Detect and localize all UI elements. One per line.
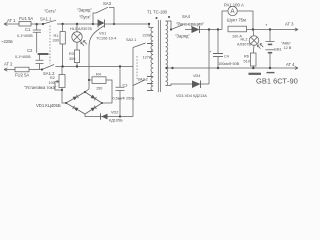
svg-text:"Пуск": "Пуск"	[79, 15, 91, 20]
node R3 bottom	[76, 65, 78, 67]
svg-text:VD3-VD4 КД213А: VD3-VD4 КД213А	[176, 94, 207, 98]
diode VD4	[192, 81, 209, 89]
capacitor C3	[116, 67, 125, 117]
svg-text:330: 330	[53, 39, 59, 43]
T1 secondary winding	[166, 21, 168, 86]
node C4 top	[217, 28, 219, 30]
node SA1.2 pivot	[41, 68, 43, 70]
wire output minus	[170, 67, 290, 69]
svg-text:С3: С3	[123, 84, 128, 88]
node R1	[61, 23, 63, 25]
svg-text:R2: R2	[50, 76, 55, 80]
fuse FU1	[17, 21, 36, 26]
svg-text:FU1 5А: FU1 5А	[19, 16, 33, 21]
wire VD4 riser	[208, 30, 210, 85]
capacitor C1	[33, 25, 41, 53]
svg-text:0,1*400В: 0,1*400В	[17, 34, 33, 38]
svg-text:А: А	[231, 9, 235, 15]
wire output plus	[253, 29, 290, 31]
node C3 top	[119, 65, 121, 67]
svg-text:"Заряд": "Заряд"	[175, 34, 190, 39]
thyristor VS1 gate	[89, 26, 105, 90]
svg-text:SA2.1: SA2.1	[126, 38, 136, 42]
resistor R1	[60, 24, 65, 67]
svg-text:0,1*400В: 0,1*400В	[15, 55, 31, 59]
switch SA1.1	[43, 20, 62, 24]
svg-text:R3: R3	[69, 52, 74, 56]
svg-text:С2: С2	[27, 48, 33, 53]
bridge VD1	[66, 92, 102, 114]
svg-text:Шунт 75м: Шунт 75м	[227, 18, 246, 23]
switch SA3	[93, 7, 114, 24]
svg-text:VS1: VS1	[99, 32, 106, 36]
svg-text:220в: 220в	[143, 34, 151, 38]
ammeter PA1	[222, 6, 253, 29]
node R4 tap	[88, 79, 90, 81]
svg-text:R1: R1	[54, 34, 59, 38]
node bridge top	[84, 91, 86, 93]
svg-text:~220в: ~220в	[1, 39, 13, 44]
svg-text:"Заряд": "Заряд"	[77, 8, 92, 13]
svg-text:Т1 ТС-180: Т1 ТС-180	[147, 10, 168, 15]
wire primary top	[149, 24, 153, 28]
capacitor C4	[213, 30, 223, 69]
svg-text:АТ 1: АТ 1	[7, 18, 16, 23]
svg-text:300: 300	[69, 57, 75, 61]
T1 secondary top tap	[166, 21, 171, 30]
thyristor VS1	[93, 20, 114, 28]
node center tap	[165, 67, 167, 69]
svg-text:"Регенерация": "Регенерация"	[176, 22, 204, 27]
svg-text:"Установка тока": "Установка тока"	[24, 85, 57, 90]
svg-text:SA1.1: SA1.1	[40, 17, 52, 22]
wire top left	[37, 23, 43, 25]
clamp bar battery	[267, 72, 275, 74]
terminal XT3 arrow	[290, 28, 298, 31]
svg-text:VD4: VD4	[193, 74, 200, 78]
svg-text:КД105Б: КД105Б	[109, 119, 123, 123]
svg-text:"Сеть": "Сеть"	[44, 9, 57, 14]
svg-text:0,5мкФ 250в: 0,5мкФ 250в	[113, 97, 135, 101]
svg-text:HL1 АЛ307Б: HL1 АЛ307Б	[70, 27, 92, 31]
wire SA2 column	[132, 67, 134, 117]
node battery bottom	[269, 67, 271, 69]
switch SA1.2	[42, 65, 62, 70]
svg-text:HL2: HL2	[241, 38, 248, 42]
svg-text:С1: С1	[25, 27, 31, 32]
clamp bar minus	[249, 73, 262, 75]
svg-text:+: +	[265, 23, 268, 28]
terminal XT4 arrow	[290, 66, 298, 69]
node rect join	[208, 28, 210, 30]
node SA4 pivot	[170, 28, 172, 30]
shunt resistor	[228, 26, 253, 32]
svg-text:R6: R6	[244, 55, 249, 59]
potentiometer R2 wiper	[55, 81, 62, 91]
svg-text:FU2 5А: FU2 5А	[15, 73, 29, 78]
node bridge right	[101, 102, 103, 104]
transformer T1 core	[158, 20, 160, 92]
wire to transformer	[114, 23, 149, 25]
battery GB1	[266, 30, 275, 69]
diode VD2	[101, 113, 108, 120]
winding dot right	[168, 16, 170, 18]
svg-text:+: +	[210, 50, 213, 54]
node shunt out	[252, 28, 254, 30]
node T1 primary top	[148, 23, 150, 25]
node R1 bottom	[61, 65, 63, 67]
potentiometer R2	[59, 67, 66, 104]
node bridge left	[65, 102, 67, 104]
switch SA2.1	[133, 43, 152, 67]
T1 secondary bottom tap	[166, 84, 192, 86]
switch SA4	[171, 25, 192, 30]
node SA3 left	[92, 23, 94, 25]
svg-text:510: 510	[244, 60, 250, 64]
svg-text:12 В: 12 В	[284, 46, 292, 50]
svg-text:АЛ307Б: АЛ307Б	[237, 43, 251, 47]
T1 primary taps	[147, 44, 153, 91]
svg-text:GB1: GB1	[274, 48, 282, 52]
LED HL2	[249, 30, 263, 54]
node R2 bottom	[61, 89, 63, 91]
wire mid left	[62, 66, 133, 68]
wire gate to bridge	[85, 89, 89, 92]
switch link SA1 dashed	[49, 26, 51, 64]
svg-text:АТ 4: АТ 4	[286, 62, 295, 67]
diode VD3	[192, 26, 223, 33]
junction bar	[38, 53, 49, 55]
winding dot left	[156, 17, 158, 19]
svg-text:SA4: SA4	[182, 14, 191, 19]
svg-text:ТС106-10-4: ТС106-10-4	[96, 36, 116, 40]
svg-text:"АКБ": "АКБ"	[281, 42, 292, 46]
node C4 bottom	[217, 67, 219, 69]
svg-text:VD2: VD2	[111, 111, 118, 115]
svg-text:АТ 3: АТ 3	[285, 22, 294, 27]
node SA1.1 pivot	[42, 23, 44, 25]
node C1 top	[36, 23, 38, 25]
resistor R6	[251, 53, 257, 68]
svg-text:С4: С4	[224, 55, 229, 59]
svg-text:РА1 100 А: РА1 100 А	[224, 3, 244, 8]
node R6 bottom	[252, 67, 254, 69]
capacitor C2	[36, 55, 44, 70]
resistor R3	[74, 50, 79, 67]
resistor R4	[89, 77, 112, 103]
svg-text:SA3: SA3	[103, 1, 112, 6]
terminal XT2 arrow	[4, 68, 15, 71]
svg-text:R4: R4	[96, 73, 101, 77]
svg-text:SA2.2: SA2.2	[138, 78, 148, 82]
svg-text:VD1 КЦ405Б: VD1 КЦ405Б	[36, 103, 61, 108]
node battery top	[269, 28, 271, 30]
node HL1	[76, 23, 78, 25]
wire bridge bottom	[85, 114, 133, 117]
LED HL1	[72, 24, 87, 50]
svg-text:100мкФ 50В: 100мкФ 50В	[218, 62, 240, 66]
fuse FU2	[15, 67, 42, 72]
T1 secondary center tap	[166, 67, 170, 69]
terminal XT1 arrow	[4, 22, 17, 25]
switch link SA2 dashed	[136, 56, 138, 79]
node C3 bottom	[119, 115, 121, 117]
wire	[62, 23, 93, 25]
svg-text:АТ 2: АТ 2	[4, 62, 13, 67]
svg-text:GB1 6СТ-90: GB1 6СТ-90	[256, 77, 298, 86]
svg-text:127в: 127в	[143, 56, 151, 60]
node SA3 right	[113, 23, 115, 25]
T1 primary winding	[151, 28, 153, 91]
switch SA2.2	[133, 77, 152, 91]
svg-text:150: 150	[96, 87, 102, 91]
